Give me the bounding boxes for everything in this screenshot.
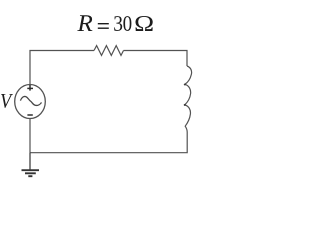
label V bbox=[1, 94, 13, 108]
wire top-right segment bbox=[124, 51, 188, 67]
inductor cusp knot upper bbox=[184, 83, 186, 85]
label R = 30 Ω bbox=[77, 15, 152, 31]
AC source sine wave bbox=[20, 96, 41, 105]
inductor cusp knot lower bbox=[184, 104, 186, 106]
wire top-left segment bbox=[30, 51, 94, 85]
wire source-bottom segment bbox=[29, 119, 31, 153]
wire right-bottom segment bbox=[30, 132, 187, 153]
minus polarity mark bbox=[27, 114, 32, 116]
resistor R1 zigzag bbox=[94, 46, 124, 56]
AC source V circle bbox=[15, 85, 46, 119]
plus polarity mark bbox=[27, 85, 33, 91]
inductor L1 coil bbox=[185, 66, 192, 132]
ground bbox=[22, 153, 40, 177]
